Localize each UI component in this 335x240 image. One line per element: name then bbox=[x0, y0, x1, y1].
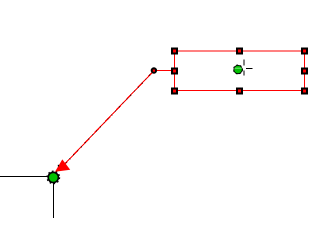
node origin dot (green, inside rectangle) bbox=[234, 65, 242, 73]
handle mid-right bbox=[301, 68, 308, 75]
wire (red connection line, diagonal) bbox=[60, 71, 154, 169]
wire bbox=[0, 176, 48, 178]
arrowhead bbox=[55, 159, 70, 171]
handle top-right bbox=[301, 48, 308, 55]
handle mid-left bbox=[171, 68, 178, 75]
crosshair cursor bbox=[244, 60, 253, 76]
handle top-mid bbox=[236, 48, 243, 55]
wire (red stub to rectangle) bbox=[154, 70, 175, 72]
node junction dot bbox=[151, 67, 157, 73]
handle bottom-left bbox=[171, 88, 178, 95]
rectangle outline (selected shape) bbox=[175, 51, 305, 91]
node junction (green pad, bottom-left) bbox=[47, 171, 60, 184]
arrowhead edge speck bbox=[58, 165, 59, 167]
handle bottom-mid bbox=[236, 88, 243, 95]
wire (dark specks along diagonal) bbox=[66, 71, 154, 163]
wire bbox=[53, 182, 55, 218]
handle top-left bbox=[171, 48, 178, 55]
handle bottom-right bbox=[301, 88, 308, 95]
